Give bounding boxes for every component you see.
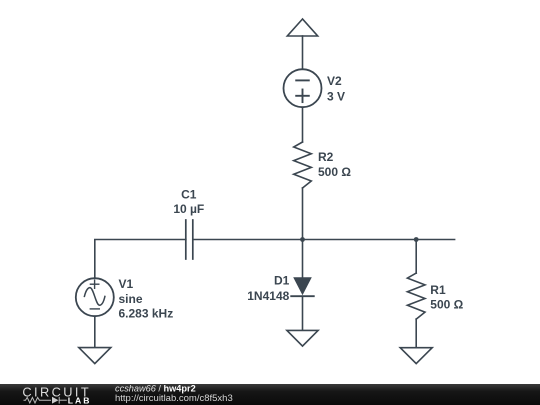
svg-text:3 V: 3 V <box>327 89 345 103</box>
svg-text:R2: R2 <box>318 150 334 164</box>
CircuitLab logo resistor-diode glyph <box>24 397 67 404</box>
ground (V1) <box>79 348 111 364</box>
svg-text:10 µF: 10 µF <box>173 202 204 216</box>
label C1 / 10 uF <box>173 188 204 217</box>
resistor R2 <box>294 142 312 188</box>
ground (R1) <box>400 348 432 364</box>
wire: R1 node down to resistor <box>415 240 417 274</box>
svg-text:V2: V2 <box>327 74 342 88</box>
node: junction dot at R1 branch <box>414 237 419 242</box>
capacitor C1 <box>186 220 193 259</box>
svg-text:ccshaw66 / hw4pr2: ccshaw66 / hw4pr2 <box>115 384 196 394</box>
svg-text:D1: D1 <box>274 274 290 288</box>
svg-text:1N4148: 1N4148 <box>247 289 289 303</box>
svg-text:sine: sine <box>119 292 143 306</box>
wire: horizontal bus left (V1 corner to C1 left plate) <box>95 240 186 279</box>
svg-text:http://circuitlab.com/c8f5xh3: http://circuitlab.com/c8f5xh3 <box>115 393 233 404</box>
svg-text:R1: R1 <box>430 283 446 297</box>
svg-text:500 Ω: 500 Ω <box>318 165 351 179</box>
svg-text:C1: C1 <box>181 188 197 202</box>
ground (D1) <box>287 330 318 346</box>
wire: V2 bottom to R2 <box>302 107 304 142</box>
wire: VCC flag to V2 top <box>302 36 304 69</box>
wire: R1 bottom to ground <box>415 319 417 348</box>
voltage source V2 <box>284 69 322 107</box>
node: junction dot at D1 branch <box>300 237 305 242</box>
wire: V1 bottom to ground <box>94 316 96 347</box>
voltage source V1 (sine) <box>76 278 114 316</box>
label V1 / sine / 6.283 kHz <box>119 277 174 320</box>
wire: D1 cathode to ground <box>302 296 304 330</box>
label R2 / 500 ohm <box>318 150 351 179</box>
svg-text:V1: V1 <box>119 277 134 291</box>
label R1 / 500 ohm <box>430 283 463 311</box>
wire: R2 bottom through node to D1 top <box>302 188 304 277</box>
label D1 / 1N4148 <box>247 274 289 303</box>
svg-text:6.283 kHz: 6.283 kHz <box>119 306 174 320</box>
resistor R1 <box>407 273 425 319</box>
label V2 / 3 V <box>327 74 345 103</box>
wire: horizontal bus right (C1 right plate to stub end) <box>193 239 455 241</box>
power flag VCC <box>287 19 317 36</box>
svg-text:500 Ω: 500 Ω <box>430 297 463 311</box>
svg-text:LAB: LAB <box>68 396 92 405</box>
diode D1 <box>291 277 314 296</box>
